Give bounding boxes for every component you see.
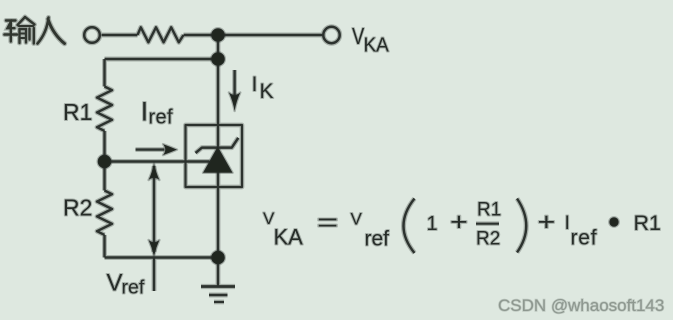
svg-text:I: I: [141, 96, 148, 126]
svg-text:=: =: [317, 208, 338, 236]
svg-text:ref: ref: [571, 226, 598, 249]
svg-text:R1: R1: [477, 199, 501, 220]
svg-text:KA: KA: [274, 224, 304, 249]
svg-text:+: +: [538, 208, 556, 236]
svg-text:R1: R1: [634, 211, 661, 235]
svg-text:ref: ref: [365, 227, 390, 250]
svg-text:V: V: [107, 269, 123, 296]
svg-text:K: K: [260, 80, 274, 103]
svg-text:V: V: [351, 209, 363, 228]
svg-text:ref: ref: [122, 276, 145, 298]
svg-text:I: I: [252, 72, 258, 96]
svg-text:V: V: [352, 24, 364, 49]
svg-text:R1: R1: [63, 99, 92, 125]
svg-text:KA: KA: [364, 34, 389, 57]
svg-text:R2: R2: [63, 194, 92, 220]
svg-text:I: I: [565, 212, 570, 234]
svg-text:1: 1: [427, 213, 438, 235]
svg-text:+: +: [450, 208, 468, 236]
svg-text:R2: R2: [476, 228, 500, 249]
svg-text:CSDN @whaosoft143: CSDN @whaosoft143: [498, 296, 664, 315]
svg-text:ref: ref: [149, 106, 174, 128]
